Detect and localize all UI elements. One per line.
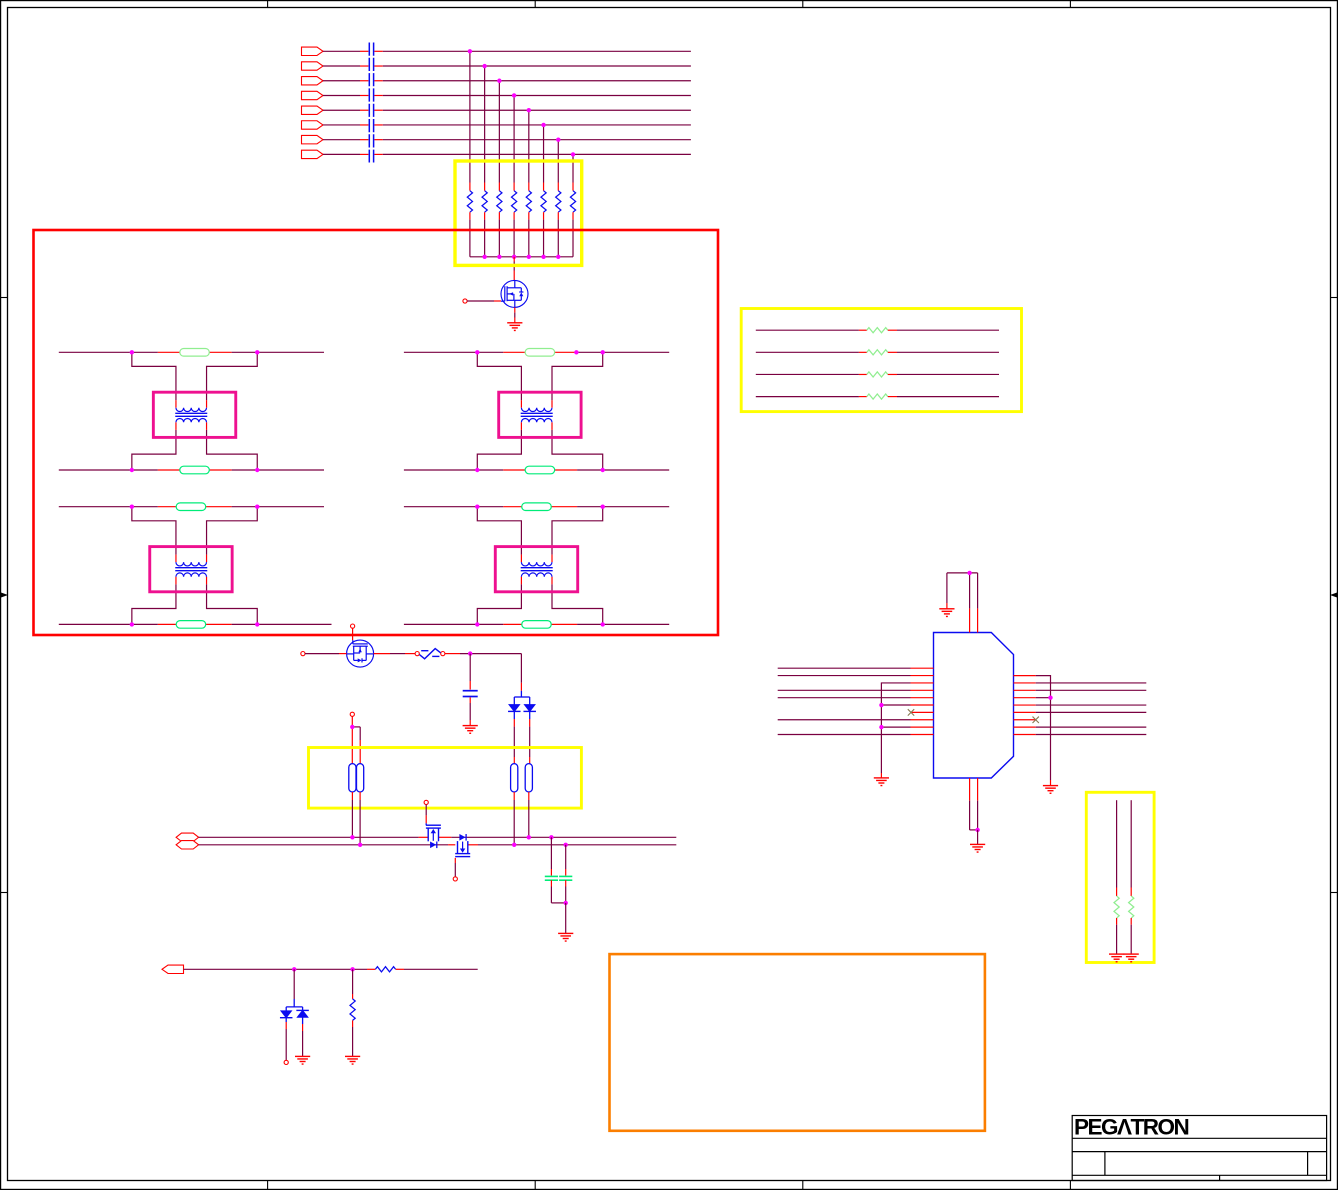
svg-text:PEGΛTRON: PEGΛTRON — [1074, 1115, 1189, 1140]
